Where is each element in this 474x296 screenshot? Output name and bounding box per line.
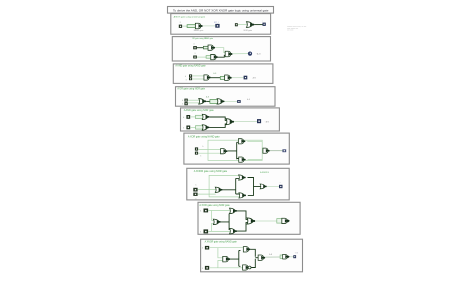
wire U23 out — [237, 223, 248, 232]
input pin IN13 — [193, 188, 197, 192]
wire U15 out — [248, 159, 263, 161]
nor U18 — [239, 175, 246, 180]
nand U26 — [223, 256, 230, 262]
panel P5: AND gate using NOR gate — [181, 108, 280, 131]
nor U19 — [239, 193, 246, 198]
wire A bus — [208, 211, 230, 221]
wire loop U4 inputs — [206, 56, 211, 59]
input pin IN1 — [179, 25, 182, 28]
wire IN12 to U13 — [198, 152, 221, 154]
wire frame bus — [209, 175, 240, 197]
svg-text:~A+B: ~A+B — [256, 52, 261, 55]
wire into U16 — [262, 150, 264, 152]
wire U28 out — [252, 258, 259, 268]
nand U3 — [208, 45, 215, 50]
wire loop U25 inputs — [277, 219, 283, 224]
wire A bus — [209, 248, 244, 258]
wire loop U9 inputs — [210, 100, 219, 104]
svg-text:B: B — [186, 80, 187, 82]
input pin IN15 — [204, 209, 209, 213]
wire B bus — [209, 261, 244, 268]
wire loop U10 inputs — [196, 115, 204, 118]
output pin OUT1 — [215, 24, 219, 28]
input pin IN11 — [195, 147, 198, 150]
nor U10 — [202, 114, 209, 119]
input pin IN16 — [204, 229, 209, 233]
nor U21 — [213, 219, 220, 225]
dark tip extension U25 — [288, 219, 290, 223]
wire U8 to loop — [206, 100, 210, 102]
wire U22 out — [237, 211, 248, 220]
wire U3 out — [215, 48, 226, 53]
input pin IN4 — [193, 56, 197, 59]
annotation text block right of panel 1 — [287, 26, 306, 31]
wire loop U30 inputs — [280, 255, 284, 259]
wire U27 out — [250, 249, 255, 256]
title box — [168, 7, 274, 14]
wire U24 to loop — [255, 220, 277, 222]
input pin IN12 — [195, 152, 198, 155]
wire U2 to OUT2 — [254, 24, 262, 26]
output pin OUT2 — [263, 23, 266, 26]
panel P2: OR gate using NAND gate — [172, 37, 270, 61]
wire U16 to OUT6 — [270, 150, 283, 152]
nand U16 — [263, 148, 270, 153]
input pin IN9 — [186, 115, 190, 119]
svg-text:B: B — [195, 199, 196, 201]
nand U5 — [225, 51, 232, 57]
wire U7 to OUT3 — [232, 77, 244, 79]
wire U20 to OUT7 — [267, 185, 279, 187]
output pin OUT7 — [279, 185, 283, 188]
input pin IN3 — [193, 46, 197, 49]
nand U4 — [211, 54, 218, 59]
wire U21 out split — [221, 214, 231, 230]
nor U24 — [247, 218, 255, 224]
svg-text:A NOT gate using universal gat: A NOT gate using universal gate — [174, 15, 206, 18]
panel P6: XOR gate using NAND gate — [184, 133, 289, 164]
nor U11 — [202, 125, 209, 130]
nor U9 — [217, 99, 224, 105]
wire B bus — [208, 223, 230, 231]
nand U6 — [204, 75, 211, 80]
wire frame bus — [208, 140, 262, 160]
svg-text:OR gate using NAND gate: OR gate using NAND gate — [192, 37, 213, 40]
nand U30 — [283, 254, 289, 259]
nor U2 — [247, 22, 255, 28]
input pin IN10 — [186, 126, 190, 130]
svg-text:B: B — [195, 53, 196, 55]
wire IN3 to loop — [197, 47, 204, 49]
wire IN11 to U13 — [198, 148, 221, 150]
svg-text:~A·B: ~A·B — [265, 120, 270, 123]
nand U14 — [238, 139, 245, 144]
bubble U28 — [248, 266, 251, 269]
nand U28 — [243, 265, 250, 270]
panel P1: NOT gate using universal gate — [171, 14, 271, 35]
svg-text:xxx xxxx: xxx xxxx — [287, 29, 294, 31]
input pin IN18 — [205, 266, 209, 270]
nor U20 — [260, 184, 267, 189]
svg-text:A XNOR B: A XNOR B — [260, 171, 269, 174]
wire IN13 to U17 — [198, 189, 216, 191]
wire IN9 to loop — [190, 116, 196, 118]
nand U29 — [258, 255, 265, 260]
wire U1 to OUT1 — [203, 25, 216, 27]
svg-text:IN: IN — [180, 22, 182, 24]
nor U8 — [199, 99, 206, 105]
wire U29 to loop — [265, 256, 280, 258]
svg-text:To derive the AND, OR NOT XOR: To derive the AND, OR NOT XOR XNOR gate … — [173, 8, 269, 12]
svg-text:A OR gate using NOR gate: A OR gate using NOR gate — [177, 88, 205, 91]
panel P4: OR gate using NOR gate — [176, 87, 276, 107]
wire U10 out — [209, 117, 226, 120]
wire IN6 to U6 — [192, 78, 205, 80]
nand U25 — [282, 218, 289, 223]
nand U15 — [239, 157, 246, 162]
output pin OUT8 — [293, 255, 296, 258]
wire U5 to LED — [232, 53, 248, 55]
wire loop U3 inputs — [203, 46, 208, 49]
svg-text:NOT_1: NOT_1 — [214, 22, 219, 24]
nand U1 — [195, 23, 202, 29]
input pin IN8 — [184, 102, 187, 105]
svg-text:A XOR gate using NAND gate: A XOR gate using NAND gate — [188, 136, 220, 139]
panel P8: XOR gate using NOR gate — [198, 202, 300, 234]
wire U6 to loop — [211, 77, 221, 79]
nand U13 — [221, 149, 228, 154]
svg-text:B: B — [200, 156, 201, 158]
nand U27 — [243, 247, 250, 252]
wire U11 out — [209, 124, 226, 127]
output pin OUT5 — [257, 119, 261, 123]
wire IN10 to loop — [190, 126, 196, 128]
input pin IN6 — [189, 77, 192, 80]
wire U13 out split — [227, 142, 240, 159]
output pin OUT3 — [244, 76, 248, 80]
panel P7: XNOR gate using NOR gate — [187, 168, 289, 200]
svg-text:NOR gate: NOR gate — [244, 29, 252, 32]
svg-text:A XOR gate using NOR gate: A XOR gate using NOR gate — [199, 204, 230, 207]
svg-text:B: B — [202, 268, 203, 270]
wire IN7 to U8 — [188, 99, 199, 101]
wire U12 to OUT5 — [234, 121, 257, 123]
wire IN14 to U17 — [198, 193, 216, 195]
dark tip extension U30 — [288, 255, 290, 258]
wire U17 out split — [222, 178, 240, 194]
wire U9 to OUT4 — [225, 100, 238, 102]
wire U14 out — [247, 140, 262, 142]
svg-text:NAND gate: NAND gate — [194, 29, 204, 32]
wire IN2 to U2 — [238, 24, 247, 26]
nor U17 — [215, 187, 222, 192]
nand U7 — [225, 75, 232, 80]
panel P9: XNOR gate using NAND gate — [201, 239, 303, 272]
svg-text:B: B — [182, 104, 183, 106]
wire loop (tied NAND inputs) — [187, 25, 196, 28]
output pin OUT4 — [237, 100, 241, 103]
wire U4 out — [218, 55, 226, 57]
input pin IN7 — [184, 99, 187, 102]
wire loop U11 inputs — [196, 126, 204, 129]
wire IN5 to U6 — [192, 75, 205, 77]
wire U18 U19 outs to U20 — [248, 178, 262, 196]
panel P3: AND gate using NAND gate — [173, 64, 273, 84]
svg-text:A AND gate using NAND gate: A AND gate using NAND gate — [175, 65, 206, 68]
nor U22 — [230, 208, 237, 214]
nor U23 — [230, 228, 237, 234]
svg-text:A AND gate using NOR gate: A AND gate using NOR gate — [184, 109, 215, 112]
nor U12 — [226, 119, 234, 125]
wire IN1 to loop — [182, 25, 187, 27]
input pin IN17 — [205, 246, 209, 250]
LED output indicator — [248, 52, 252, 56]
wire IN8 to U8 — [188, 102, 199, 104]
wire IN4 to loop — [197, 56, 206, 58]
svg-text:A XNOR gate using NAND gate: A XNOR gate using NAND gate — [205, 241, 238, 244]
output pin OUT6 — [282, 149, 286, 152]
input pin IN2 — [235, 23, 238, 26]
wire U30 to OUT8 — [290, 256, 294, 258]
wire loop U7 inputs — [220, 77, 226, 80]
input pin IN5 — [189, 74, 192, 77]
input pin IN14 — [193, 193, 197, 196]
svg-text:A XNOR gate using NOR gate: A XNOR gate using NOR gate — [194, 170, 228, 173]
wire U26 out split — [230, 251, 240, 267]
